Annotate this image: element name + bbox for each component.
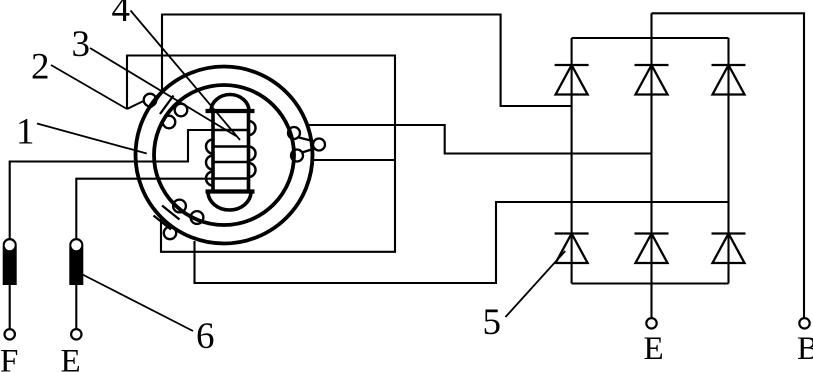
rotor bottom bar (206, 189, 255, 193)
terminal E (rectifier) circle (646, 318, 656, 328)
diode D2 top row middle (635, 65, 669, 95)
stator outer circle (136, 67, 313, 244)
svg-text:3: 3 (72, 24, 91, 65)
wire brush F to terminal F (9, 285, 11, 330)
stator inner circle (154, 85, 294, 225)
wire E brush to rotor coil bottom (slip ring) (76, 179, 213, 239)
leader line 1 (37, 124, 147, 154)
terminal F circle (5, 329, 15, 339)
brush F (3, 239, 16, 285)
svg-text:6: 6 (196, 316, 215, 357)
svg-text:E: E (644, 331, 664, 367)
rotor bottom dome (208, 192, 251, 211)
terminal B circle (799, 318, 809, 328)
diode D1 top row left (555, 65, 589, 95)
svg-text:2: 2 (31, 47, 50, 88)
svg-text:F: F (0, 344, 18, 372)
stator coil lower-left (154, 200, 204, 240)
svg-text:4: 4 (112, 0, 131, 30)
svg-text:E: E (61, 344, 81, 372)
wire phase 2: right coil to rectifier column 2 (309, 125, 652, 154)
leader line 4 (131, 11, 241, 141)
rotor core body (213, 111, 249, 192)
rotor top bar (206, 109, 255, 113)
rotor top dome (211, 95, 249, 111)
svg-text:1: 1 (16, 112, 35, 153)
wire rectifier column 3 (727, 38, 729, 284)
brush E (70, 239, 83, 285)
wire brush E to terminal E (75, 285, 77, 330)
wire box B: star-point wire linking the three stator coils (127, 56, 395, 252)
wire F brush to rotor coil top (slip ring) (10, 130, 213, 240)
leader line 3 (90, 48, 236, 136)
wire rectifier top bus (572, 37, 729, 39)
diode D5 bottom row middle (635, 234, 669, 264)
wire rectifier output to terminal B (652, 13, 805, 318)
diode D4 bottom row left (555, 234, 589, 264)
leader line 2 (51, 65, 127, 109)
leader line 5 (506, 251, 566, 317)
wire stub: right coil inner end to star wire (296, 159, 395, 161)
terminal E (left) circle (71, 329, 81, 339)
svg-text:5: 5 (483, 302, 502, 343)
diode D6 bottom row right (712, 234, 746, 264)
leader line 6 (83, 275, 194, 332)
svg-text:B: B (797, 331, 813, 367)
stator coil upper-left (127, 89, 187, 128)
wire rectifier column 2 (650, 13, 652, 318)
stator coil right (288, 127, 325, 162)
wire box A: phase-1 wire from stator top-left over top to rectifier column 1 (162, 15, 572, 107)
wire rectifier column 1 (571, 38, 573, 284)
wire rectifier bottom bus (572, 282, 729, 284)
rotor field coil turns (206, 121, 255, 186)
wire phase 3: lower-left coil to rectifier column 3 (195, 202, 729, 283)
diode D3 top row right (712, 65, 746, 95)
